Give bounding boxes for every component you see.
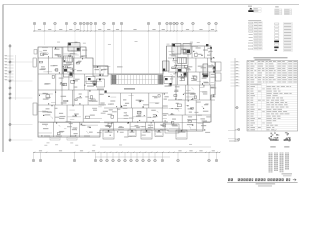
node dark marks near right wing top edge — [206, 44, 208, 46]
node center label text — [124, 88, 135, 90]
node stamp caption left — [270, 146, 275, 147]
wire grid stem through notch — [103, 31, 105, 74]
wire grid stem through notch — [148, 31, 150, 74]
node schedule table grid — [247, 61, 298, 132]
node stair block left wing top edge — [68, 43, 80, 51]
node balcony bump left lower — [33, 103, 37, 115]
wire bottom wall double line center — [100, 128, 168, 130]
node drawing title text — [228, 178, 230, 181]
node stair core column right wing — [175, 54, 177, 100]
node left grid bubble column — [9, 44, 11, 142]
node stair core right end — [158, 75, 163, 84]
node legend A symbol row 1 — [250, 8, 253, 9]
node center corridor cell row — [111, 75, 163, 85]
node stair cluster at notch right — [163, 61, 170, 71]
wire grid stem — [176, 31, 178, 45]
wire sheet frame top border — [3, 4, 299, 6]
wire left grid extension line — [12, 80, 33, 82]
node protruding room bottom right — [165, 124, 179, 133]
wire bottom third dimension line — [95, 156, 170, 158]
node column footer text 1 — [282, 173, 293, 174]
node legend table A main rows — [248, 20, 261, 21]
wire grid stem through notch — [159, 31, 161, 74]
node legend table B header text — [275, 6, 279, 7]
wire bottom wall double line right — [168, 129, 203, 131]
node junction cluster left wing to center — [88, 78, 91, 80]
node balcony bump left upper — [33, 58, 36, 67]
node bay window blocks center bottom — [103, 130, 114, 139]
node small bump top-left corner — [34, 50, 37, 55]
node bottom balcony left section — [50, 137, 60, 140]
wire grid stem through notch — [113, 31, 115, 74]
wire grid stem — [208, 31, 210, 45]
node legend B main rows — [274, 23, 279, 24]
node small text above corridor — [117, 66, 123, 67]
wire sheet frame left border — [2, 5, 4, 153]
node stamp caption right — [284, 146, 289, 147]
node right grid bubble column — [234, 58, 236, 142]
node specification text columns — [269, 153, 273, 173]
node bottom balcony left section — [67, 137, 77, 140]
node machinery stamp icon left — [274, 132, 276, 133]
node interior fixtures extra scatter — [75, 115, 76, 116]
node top column grid bubbles — [33, 22, 36, 25]
wire left grid extension line — [12, 97, 33, 99]
wire corridor wall long — [40, 122, 210, 124]
node extra room labels lower half — [108, 104, 112, 105]
node schedule table title lines — [254, 57, 288, 58]
node legend B upper rows — [275, 9, 282, 11]
node bottom grid bubbles — [33, 152, 35, 159]
node small dimension texts around plan — [189, 42, 192, 45]
wire title underline — [227, 181, 297, 183]
wire grid stem — [74, 31, 76, 45]
node machinery stamp icon right — [288, 137, 290, 138]
node legend A symbol row 2 black bar — [248, 10, 254, 12]
node balcony bump right lower — [216, 73, 222, 81]
wire left grid extension line — [12, 139, 33, 141]
wire top dimension line — [33, 30, 218, 32]
node window symbols on outer walls — [44, 135, 50, 137]
node balcony bump right upper — [216, 62, 222, 71]
node subtitle line 2 — [258, 185, 272, 186]
wire grid stem through notch — [95, 31, 97, 74]
node stair core column left wing — [61, 47, 63, 105]
node dark marks near right wing edge — [213, 67, 215, 70]
node building outer wall — [38, 46, 215, 137]
node junction cluster right wing to center — [164, 77, 172, 84]
node column footer text 2 — [283, 175, 292, 176]
node rooftop block on right wing (right half) — [183, 44, 191, 55]
wire grid stem through notch — [121, 31, 123, 74]
node schedule table cell texts — [248, 60, 250, 63]
node stair core left end — [112, 75, 117, 84]
wire bottom secondary dimension line — [100, 146, 211, 148]
node rooftop block on right wing (left half) — [172, 44, 181, 55]
wire left grid extension line — [12, 61, 33, 63]
node stairwell right wing — [203, 64, 208, 77]
wire grid stem — [44, 31, 46, 45]
node right column text — [229, 141, 239, 142]
node room cluster at notch left — [93, 66, 108, 76]
wire right column tick — [228, 130, 237, 132]
wire right column tick 2 — [228, 138, 237, 140]
node legend table A header text — [248, 6, 252, 7]
wire bottom main dimension line — [33, 151, 220, 153]
wire bottom wall double line left — [38, 135, 100, 137]
wire left grid extension line — [12, 124, 33, 126]
wire interior partition walls and rooms — [51, 47, 53, 58]
node subtitle line 1 — [256, 183, 276, 184]
